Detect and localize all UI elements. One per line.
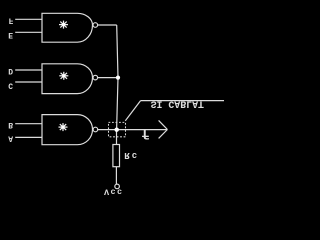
- svg-text:F: F: [9, 15, 14, 24]
- svg-text:A: A: [8, 133, 13, 142]
- svg-text:Rc: Rc: [124, 150, 139, 160]
- svg-text:B: B: [8, 120, 13, 129]
- svg-text:E: E: [8, 30, 13, 39]
- svg-text:f: f: [141, 124, 149, 140]
- svg-text:Vcc: Vcc: [104, 187, 124, 197]
- svg-text:D: D: [8, 66, 13, 75]
- svg-text:SI CABLAT: SI CABLAT: [151, 98, 204, 109]
- svg-text:C: C: [8, 80, 13, 89]
